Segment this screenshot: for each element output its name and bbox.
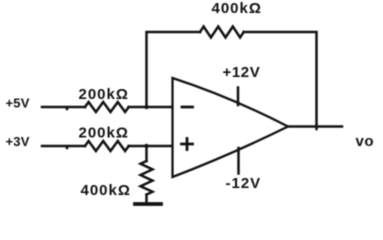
svg-text:+12V: +12V (223, 64, 261, 81)
svg-text:400kΩ: 400kΩ (212, 0, 262, 17)
svg-text:400kΩ: 400kΩ (81, 182, 131, 199)
svg-text:+3V: +3V (6, 134, 30, 149)
svg-text:-12V: -12V (226, 175, 262, 192)
svg-text:vo: vo (356, 133, 375, 150)
svg-text:200kΩ: 200kΩ (79, 86, 129, 103)
svg-text:200kΩ: 200kΩ (79, 125, 129, 142)
svg-text:+5V: +5V (6, 96, 30, 111)
